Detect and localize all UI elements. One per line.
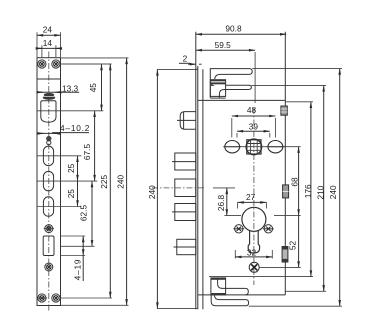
extension line deadbolt bottom (61, 255, 86, 257)
right edge tab 2 (283, 185, 289, 198)
vertical centerline of case (253, 108, 255, 285)
extension line oval2 center (37, 180, 97, 182)
svg-text:24: 24 (43, 25, 53, 35)
middle screw upper (44, 225, 54, 233)
svg-text:14: 14 (43, 38, 53, 48)
extension line deadbolt top (61, 235, 86, 237)
dimension 52 (288, 215, 299, 267)
follower square hole (246, 139, 262, 155)
svg-text:240: 240 (328, 185, 338, 199)
extension line top screw centers (61, 63, 112, 65)
spindle hole left (223, 141, 241, 153)
lower deadbolt side view (174, 239, 196, 254)
dimension 14 (38, 38, 60, 57)
dimension 25 upper (66, 156, 78, 181)
svg-text:39: 39 (249, 122, 259, 132)
svg-text:90.8: 90.8 (225, 23, 242, 33)
extension line deadbolt center (61, 245, 95, 247)
bottom tab outline (211, 278, 248, 306)
svg-text:68: 68 (290, 177, 300, 187)
dimension 2 (179, 54, 202, 64)
svg-text:4–10.2: 4–10.2 (60, 123, 90, 133)
extension line top plate edge (61, 57, 129, 59)
LEFT VIEW: faceplate front view (37, 25, 129, 312)
extension 240 bottom (249, 305, 342, 307)
faceplate section line below top screws (37, 78, 61, 80)
case top edge (198, 99, 285, 101)
horizontal centerline of case (152, 187, 205, 189)
dimension 4-19 (72, 236, 83, 281)
svg-text:52: 52 (288, 241, 298, 251)
dimension 25 lower (66, 181, 78, 206)
dimension 90.8 (196, 23, 286, 34)
extension line bottom plate edge (61, 304, 129, 306)
dimension 32 (235, 247, 272, 258)
svg-text:45: 45 (88, 83, 98, 93)
svg-text:62.5: 62.5 (79, 205, 89, 222)
svg-text:210: 210 (316, 185, 326, 199)
svg-text:25: 25 (66, 163, 76, 173)
bottom screw right (52, 294, 60, 302)
extension line oval3 center (37, 206, 82, 208)
svg-text:225: 225 (99, 174, 109, 188)
round bolt C side view (172, 204, 196, 221)
cylinder screw right (263, 225, 274, 233)
case bottom edge (198, 294, 285, 296)
svg-text:240: 240 (147, 185, 157, 199)
svg-text:32: 32 (247, 247, 257, 257)
extension line bottom screw centers (61, 297, 113, 299)
svg-text:4–19: 4–19 (72, 259, 82, 281)
svg-text:48: 48 (247, 105, 257, 115)
holes horizontal centerline (224, 146, 284, 148)
dimension 225 (99, 64, 110, 298)
round bolt B side view (175, 179, 196, 197)
deadbolt slot (43, 236, 54, 256)
dimension 240 left view (116, 58, 127, 305)
extension bottom screw right (260, 266, 301, 268)
svg-text:59.5: 59.5 (215, 40, 232, 50)
spindle hole right (266, 141, 284, 153)
middle screw lower (45, 263, 53, 271)
svg-text:25: 25 (66, 189, 76, 199)
svg-text:13.3: 13.3 (62, 83, 79, 93)
dimension 176 (303, 102, 313, 277)
svg-text:2: 2 (183, 54, 188, 64)
dimension 24 (37, 25, 61, 58)
dimension 62.5 (79, 181, 93, 246)
svg-text:26.8: 26.8 (216, 195, 226, 212)
RIGHT VIEW: lock case side view (147, 23, 342, 309)
top screw left (38, 60, 46, 68)
faceplate outline (37, 58, 61, 306)
svg-text:27: 27 (246, 192, 256, 202)
right edge tab 1 (281, 106, 287, 115)
dimension 13.3 leader and arrows (38, 83, 80, 93)
faceplate edge-on (2 thick) (195, 32, 197, 309)
top tab outline (210, 69, 252, 98)
dimension 4-10.2 label and arrows (37, 123, 90, 133)
dimension 45 (61, 64, 112, 111)
latch bolt side view (177, 112, 196, 130)
oval slot 3 (43, 197, 53, 217)
dimension 39 (237, 122, 270, 138)
oval slot 1 (43, 146, 53, 166)
svg-text:67.5: 67.5 (82, 144, 92, 161)
svg-text:176: 176 (303, 184, 313, 198)
top tab hatched block (210, 80, 225, 98)
top screw right (52, 60, 60, 68)
dimension 48 (232, 105, 276, 138)
bottom fixing screw (249, 262, 259, 272)
oval slot 2 (43, 171, 53, 191)
right edge tab 3 (282, 247, 288, 263)
dimension 59.5 (196, 40, 255, 103)
extension cylinder center right (274, 214, 301, 216)
dimension 27 (238, 192, 267, 208)
dimension 240 left side (147, 69, 198, 308)
case front wall line (202, 69, 204, 309)
extension line oval1 center (37, 155, 82, 157)
dimension 68 (290, 147, 300, 216)
euro cylinder hole (242, 207, 266, 253)
bottom screw left (37, 294, 48, 302)
svg-text:240: 240 (116, 174, 126, 188)
extension 176 top (286, 101, 314, 103)
extension line at latch bottom reference (37, 110, 103, 112)
dimension 210 (316, 85, 326, 291)
extension holes center right (281, 146, 301, 148)
round bolt A side view (172, 153, 196, 170)
cylinder screw left (233, 225, 244, 233)
bottom tab hatched block (211, 278, 226, 295)
small pin below 4-10.2 (46, 136, 51, 145)
latch cutout in faceplate (41, 101, 56, 122)
latch bolt head (front) (43, 93, 55, 100)
dimension 67.5 (82, 111, 95, 181)
extension 240 top (252, 68, 342, 70)
faceplate vertical centerline (48, 52, 50, 313)
extension 176 bottom (209, 276, 313, 278)
case right edge (284, 32, 286, 295)
extension 210 bottom (285, 290, 326, 292)
extension 210 top (252, 84, 327, 86)
dimension 240 right side (328, 69, 340, 307)
dimension 26.8 (213, 188, 241, 216)
